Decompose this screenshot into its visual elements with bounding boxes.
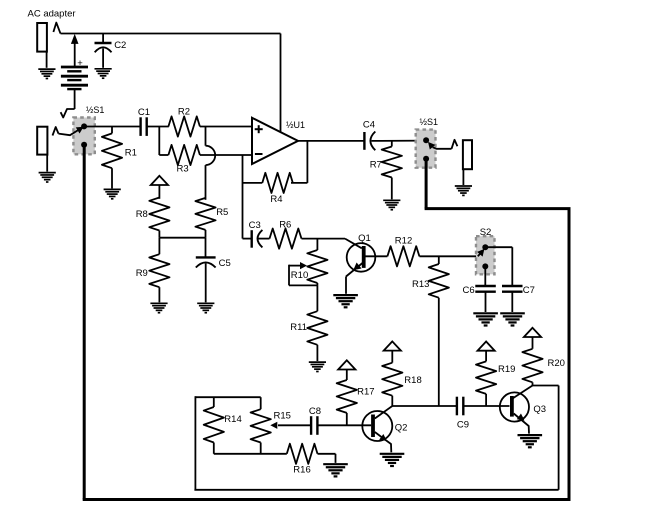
label Q2 xyxy=(395,423,408,434)
resistor R20 xyxy=(522,349,542,383)
label C5 xyxy=(219,258,231,269)
jack J3 output xyxy=(452,140,473,169)
svg-text:R20: R20 xyxy=(548,358,565,369)
power arrow xyxy=(151,176,168,199)
battery B1 plus arrow xyxy=(71,34,79,67)
label R18 xyxy=(404,375,421,386)
wire xyxy=(102,49,104,68)
svg-text:AC adapter: AC adapter xyxy=(28,8,76,19)
svg-text:C4: C4 xyxy=(363,119,375,130)
capacitor C1 xyxy=(141,117,147,136)
label R16 xyxy=(293,465,310,476)
wire switch arm with arrow xyxy=(59,127,84,136)
ground xyxy=(383,200,400,209)
resistor R13 xyxy=(429,256,449,297)
svg-text:R6: R6 xyxy=(279,220,291,231)
resistor R14 xyxy=(204,397,224,454)
ground xyxy=(380,454,405,466)
label R12 xyxy=(395,236,412,247)
wire xyxy=(419,255,477,257)
wire xyxy=(438,298,440,406)
label R8 xyxy=(136,209,148,220)
wire op-amp power xyxy=(280,34,282,133)
svg-text:R18: R18 xyxy=(404,375,421,386)
wire output xyxy=(298,140,364,142)
jack J1 AC adapter xyxy=(37,23,60,52)
wire xyxy=(462,169,464,185)
wire xyxy=(243,182,263,184)
resistor R17 xyxy=(337,380,357,413)
resistor R5 xyxy=(195,198,215,230)
resistor R12 xyxy=(387,246,419,266)
resistor R16 xyxy=(287,444,318,464)
svg-text:R2: R2 xyxy=(178,107,190,118)
label R17 xyxy=(357,386,374,397)
svg-text:R5: R5 xyxy=(216,207,228,218)
svg-text:C9: C9 xyxy=(457,419,469,430)
node B xyxy=(316,239,318,250)
wire arrow to S2 xyxy=(477,249,484,257)
wire xyxy=(214,453,287,455)
ground xyxy=(95,69,112,78)
wire xyxy=(158,287,160,302)
svg-text:R7: R7 xyxy=(370,160,382,171)
svg-text:½S1: ½S1 xyxy=(420,117,439,127)
label R3 xyxy=(177,164,189,175)
wire xyxy=(84,126,141,128)
capacitor C7 xyxy=(502,286,523,292)
ground xyxy=(38,69,55,78)
svg-text:R13: R13 xyxy=(412,279,429,290)
wire xyxy=(200,154,252,156)
transistor Q2 xyxy=(362,406,392,452)
label S2 xyxy=(480,227,492,238)
svg-text:R4: R4 xyxy=(270,194,282,205)
svg-text:R17: R17 xyxy=(357,386,374,397)
wire xyxy=(205,230,207,238)
resistor R6 xyxy=(270,229,302,249)
label C3 xyxy=(249,220,261,231)
svg-text:R8: R8 xyxy=(136,209,148,220)
svg-text:C8: C8 xyxy=(309,406,321,417)
label battery + xyxy=(77,58,83,69)
transistor Q3 xyxy=(500,386,533,434)
label half S1 left xyxy=(86,105,105,115)
capacitor C5 xyxy=(196,257,216,267)
wire minus input feed xyxy=(242,155,244,239)
label R11 xyxy=(290,322,307,333)
svg-text:R15: R15 xyxy=(274,410,291,421)
label R6 xyxy=(279,220,291,231)
wire xyxy=(316,345,318,361)
wire xyxy=(484,266,486,285)
svg-text:C7: C7 xyxy=(523,285,535,296)
label C7 xyxy=(523,285,535,296)
label R5 xyxy=(216,207,228,218)
ground xyxy=(333,295,358,307)
capacitor C9 xyxy=(457,397,463,416)
label C1 xyxy=(138,107,150,118)
label R1 xyxy=(125,148,137,159)
resistor R11 xyxy=(307,311,327,345)
wire xyxy=(316,285,318,311)
wire xyxy=(159,231,205,238)
label C8 xyxy=(309,406,321,417)
label R7 xyxy=(370,160,382,171)
resistor R3 xyxy=(168,145,200,165)
wire loop xyxy=(194,386,558,490)
switch half S1 left xyxy=(73,118,94,155)
label R13 xyxy=(412,279,429,290)
capacitor C6 xyxy=(475,286,496,292)
svg-text:C1: C1 xyxy=(138,107,150,118)
op-amp U1 xyxy=(252,118,298,164)
wire xyxy=(463,405,509,407)
svg-text:R3: R3 xyxy=(177,164,189,175)
label R10 xyxy=(291,270,308,281)
svg-text:R9: R9 xyxy=(136,268,148,279)
resistor R18 xyxy=(382,363,402,396)
wire xyxy=(485,394,487,406)
label C4 xyxy=(363,119,375,130)
label C6 xyxy=(463,285,475,296)
label R9 xyxy=(136,268,148,279)
svg-text:Q1: Q1 xyxy=(358,233,371,244)
wire xyxy=(205,238,207,257)
svg-text:½U1: ½U1 xyxy=(286,120,305,130)
ground xyxy=(39,173,56,182)
svg-text:Q3: Q3 xyxy=(533,404,546,415)
resistor R2 xyxy=(168,116,200,136)
ground xyxy=(104,189,121,198)
wire xyxy=(147,126,169,128)
power arrow xyxy=(524,328,541,349)
wire battery minus with contact xyxy=(61,89,75,117)
capacitor C2 xyxy=(95,43,112,52)
ground xyxy=(455,186,472,195)
wire switch arm with arrow xyxy=(428,142,452,150)
label R2 xyxy=(178,107,190,118)
node A xyxy=(158,127,160,156)
wire xyxy=(102,34,104,43)
svg-text:R11: R11 xyxy=(290,322,307,333)
svg-text:C6: C6 xyxy=(463,285,475,296)
label R20 xyxy=(548,358,565,369)
wire xyxy=(258,238,269,240)
wire xyxy=(291,182,307,184)
svg-text:R19: R19 xyxy=(498,364,515,375)
label R4 xyxy=(270,194,282,205)
wire xyxy=(485,247,512,285)
wire xyxy=(111,127,113,134)
label C9 xyxy=(457,419,469,430)
resistor R1 xyxy=(102,133,122,168)
wire xyxy=(302,238,346,240)
wire xyxy=(318,454,336,463)
svg-text:R10: R10 xyxy=(291,270,308,281)
svg-text:C2: C2 xyxy=(114,40,126,51)
wire R15 wiper xyxy=(270,422,311,429)
resistor R10 trimmer xyxy=(289,250,328,285)
power arrow xyxy=(384,341,401,362)
resistor R7 xyxy=(382,141,402,178)
wire xyxy=(372,140,427,142)
label R19 xyxy=(498,364,515,375)
wire xyxy=(511,292,513,312)
wire top rail xyxy=(61,33,281,35)
resistor R19 xyxy=(476,361,496,394)
label Q1 xyxy=(358,233,371,244)
label Q3 xyxy=(533,404,546,415)
label AC adapter xyxy=(28,8,76,19)
wire Q1 base xyxy=(345,239,362,249)
ground xyxy=(323,464,348,476)
wire xyxy=(46,155,48,172)
wire with hop xyxy=(206,127,216,200)
wire xyxy=(159,154,168,156)
svg-text:C5: C5 xyxy=(219,258,231,269)
ground xyxy=(518,435,543,447)
capacitor C8 xyxy=(311,416,317,435)
wire xyxy=(306,141,308,183)
resistor R8 xyxy=(149,198,169,231)
resistor R15 trimmer xyxy=(251,397,271,454)
wire xyxy=(46,52,48,68)
label half U1 xyxy=(286,120,305,130)
wire power loop thick xyxy=(83,145,571,500)
ground xyxy=(150,303,167,312)
wire collector line xyxy=(392,405,457,407)
label half S1 right xyxy=(420,117,439,127)
svg-text:R12: R12 xyxy=(395,236,412,247)
label C2 xyxy=(114,40,126,51)
power arrow xyxy=(478,342,495,362)
ground xyxy=(500,313,525,325)
label R15 xyxy=(274,410,291,421)
resistor R4 xyxy=(262,173,293,193)
battery B1 xyxy=(61,67,88,89)
wire xyxy=(391,396,393,406)
svg-text:C3: C3 xyxy=(249,220,261,231)
svg-text:R1: R1 xyxy=(125,148,137,159)
wire xyxy=(200,126,252,128)
jack J2 input xyxy=(37,127,58,155)
wire xyxy=(317,424,371,426)
transistor Q1 xyxy=(346,243,387,294)
resistor R9 xyxy=(149,238,169,288)
ground xyxy=(309,362,326,371)
wire xyxy=(532,382,534,385)
switch half S1 right xyxy=(416,130,436,168)
wire xyxy=(485,292,487,312)
ground xyxy=(473,313,498,325)
wire xyxy=(346,413,348,425)
wire xyxy=(111,168,113,188)
label R14 xyxy=(224,414,241,425)
wire xyxy=(205,264,207,303)
svg-text:R16: R16 xyxy=(293,465,310,476)
capacitor C3 xyxy=(243,230,263,248)
svg-text:R14: R14 xyxy=(224,414,241,425)
power arrow xyxy=(338,360,355,380)
switch S2 xyxy=(476,236,495,274)
capacitor C4 xyxy=(364,132,375,151)
wire xyxy=(391,178,393,200)
ground xyxy=(197,303,214,312)
svg-text:Q2: Q2 xyxy=(395,423,408,434)
svg-text:½S1: ½S1 xyxy=(86,105,105,115)
